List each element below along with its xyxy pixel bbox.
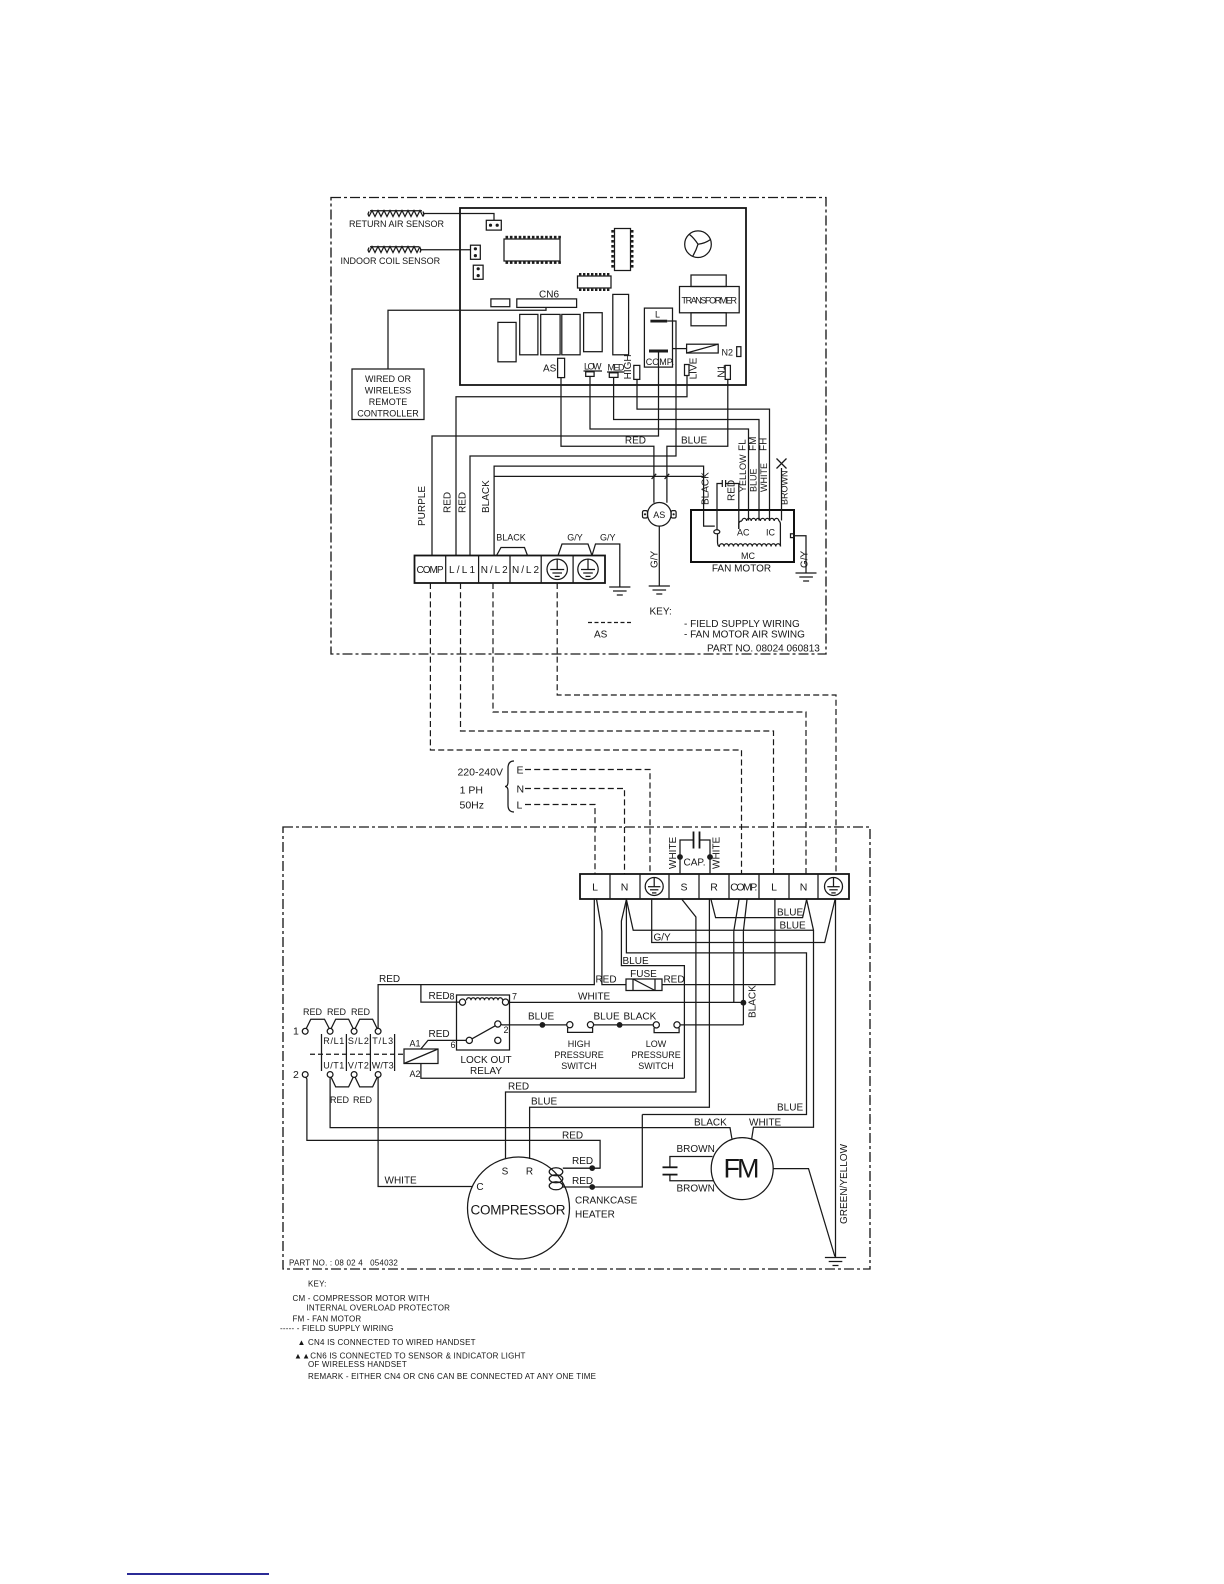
svg-text:BLACK: BLACK	[748, 985, 759, 1018]
wire return air sensor to CN	[423, 214, 494, 221]
svg-text:R: R	[710, 882, 718, 894]
AC/IC coil	[739, 521, 742, 529]
svg-text:BLACK: BLACK	[496, 533, 526, 543]
svg-text:PRESSURE: PRESSURE	[554, 1050, 604, 1060]
svg-text:COMP.: COMP.	[646, 357, 674, 367]
svg-text:CM - COMPRESSOR MOTOR WITH: CM - COMPRESSOR MOTOR WITH	[293, 1294, 430, 1303]
wire LIVE to L/L1 (RED)	[456, 376, 687, 556]
buzzer/fan symbol on PCB	[685, 231, 712, 258]
jumper loops row 2	[331, 1077, 353, 1087]
svg-text:A2: A2	[410, 1069, 421, 1079]
main IC U1	[504, 236, 561, 264]
svg-text:T/L3: T/L3	[372, 1036, 393, 1046]
svg-text:E: E	[517, 765, 524, 777]
svg-text:N1: N1	[717, 364, 728, 377]
svg-text:FL: FL	[738, 439, 749, 451]
IC U3 small	[578, 273, 612, 291]
svg-text:L: L	[771, 882, 777, 894]
svg-text:FM: FM	[724, 1154, 760, 1184]
high pressure switch	[567, 1022, 573, 1028]
outdoor unit dashed enclosure	[283, 827, 870, 1269]
svg-text:N/L2: N/L2	[512, 565, 539, 576]
svg-text:FAN MOTOR: FAN MOTOR	[712, 564, 771, 575]
jumper loops row 1	[306, 1019, 329, 1028]
svg-text:RED: RED	[303, 1007, 323, 1017]
svg-text:PRESSURE: PRESSURE	[631, 1050, 681, 1060]
svg-text:GREEN/YELLOW: GREEN/YELLOW	[839, 1143, 850, 1224]
svg-text:INDOOR COIL SENSOR: INDOOR COIL SENSOR	[341, 256, 441, 266]
svg-text:RED: RED	[595, 975, 616, 986]
wire indoor coil sensor to CN	[420, 249, 471, 251]
svg-text:COMPRESSOR: COMPRESSOR	[471, 1203, 566, 1218]
earth terminal E1	[547, 559, 567, 579]
svg-text:RED: RED	[379, 974, 400, 985]
svg-text:TRANSFORMER: TRANSFORMER	[682, 296, 738, 306]
jumper N2	[673, 344, 741, 357]
svg-text:BLUE: BLUE	[749, 468, 759, 492]
svg-text:220-240V: 220-240V	[457, 767, 503, 779]
wire relay pin8 to RED bus	[421, 985, 460, 1003]
field wire N	[525, 789, 625, 875]
wire COMP. cell to pressure switches (BLACK)	[743, 900, 747, 1025]
WHITE wire relay pin7 to COMP black wire	[510, 1001, 744, 1003]
svg-text:N/L2: N/L2	[481, 565, 508, 576]
wire LOW to fan motor (YELLOW/FL)	[590, 376, 749, 520]
svg-text:L: L	[655, 310, 660, 320]
svg-text:7: 7	[512, 992, 517, 1002]
svg-text:FM - FAN MOTOR: FM - FAN MOTOR	[293, 1315, 362, 1324]
svg-text:BLUE: BLUE	[681, 436, 707, 447]
svg-text:BLUE: BLUE	[528, 1012, 554, 1023]
svg-text:HIGH: HIGH	[623, 354, 634, 379]
svg-text:REMOTE: REMOTE	[369, 397, 408, 407]
svg-text:FM: FM	[748, 437, 759, 451]
svg-text:FUSE: FUSE	[630, 969, 657, 980]
svg-text:LOW: LOW	[584, 362, 602, 372]
svg-text:BROWN: BROWN	[780, 471, 790, 506]
chassis ground symbol	[609, 587, 630, 595]
BROWN wire with cut mark X	[781, 468, 783, 521]
svg-text:RED: RED	[327, 1007, 347, 1017]
heater top wire (RED)	[563, 1167, 600, 1169]
svg-text:CRANKCASE: CRANKCASE	[575, 1196, 638, 1207]
svg-text:FH: FH	[759, 438, 770, 451]
wire N(left) branch to crankcase heater	[626, 900, 806, 1115]
svg-text:2: 2	[293, 1069, 299, 1081]
outdoor fan motor FM	[663, 1118, 847, 1266]
return air sensor element	[349, 211, 501, 231]
indoor PCB board outline	[460, 208, 746, 385]
wire AS output to AS motor (RED)	[561, 378, 654, 503]
svg-text:RED: RED	[429, 1029, 450, 1040]
svg-text:HIGH: HIGH	[568, 1039, 591, 1049]
field wire E	[525, 770, 650, 875]
svg-text:RETURN AIR SENSOR: RETURN AIR SENSOR	[349, 219, 445, 229]
svg-text:RED: RED	[663, 975, 684, 986]
compressor CM	[468, 1157, 570, 1259]
svg-text:COMP.: COMP.	[730, 882, 757, 894]
inter-unit wire COMP	[430, 583, 741, 874]
outdoor terminal strip TB2	[580, 874, 849, 899]
svg-text:L/L1: L/L1	[449, 565, 475, 576]
fan motor FM indoor	[691, 437, 817, 581]
outdoor wiring upper	[378, 899, 850, 1258]
svg-text:BLUE: BLUE	[777, 908, 803, 919]
wire HIGH to fan motor (WHITE/FH)	[637, 379, 770, 520]
svg-text:RED: RED	[508, 1082, 529, 1093]
svg-text:RED: RED	[562, 1131, 583, 1142]
BLACK jumper flag on N/L2	[497, 548, 528, 556]
COMP driver block	[644, 308, 674, 367]
svg-text:INTERNAL OVERLOAD PROTECTOR: INTERNAL OVERLOAD PROTECTOR	[307, 1304, 451, 1313]
relay bank	[498, 294, 629, 361]
brace	[505, 761, 514, 812]
wire R cell to compressor R (BLUE)	[530, 900, 710, 1160]
svg-text:IC: IC	[766, 528, 776, 538]
svg-text:50Hz: 50Hz	[459, 800, 484, 812]
svg-text:S: S	[502, 1167, 509, 1178]
svg-text:L: L	[592, 882, 598, 894]
wire L(left) to isolator RED bus	[378, 899, 594, 1029]
svg-text:G/Y: G/Y	[650, 550, 661, 568]
wire U/T1 to outdoor fan motor (BLACK)	[330, 1077, 732, 1138]
svg-text:LOW: LOW	[646, 1039, 667, 1049]
svg-text:G/Y: G/Y	[567, 533, 583, 543]
svg-text:G/Y: G/Y	[800, 550, 811, 568]
earth terminal left	[645, 878, 663, 896]
svg-text:AS: AS	[594, 630, 608, 641]
svg-text:RED: RED	[572, 1176, 593, 1187]
inter-unit wire N/L2	[493, 583, 806, 874]
svg-text:- FIELD SUPPLY WIRING: - FIELD SUPPLY WIRING	[684, 619, 800, 630]
switch line from relay pin2	[501, 1023, 567, 1026]
svg-text:KEY:: KEY:	[308, 1280, 327, 1289]
svg-text:RED: RED	[443, 492, 454, 513]
svg-text:WIRED OR: WIRED OR	[365, 374, 411, 384]
svg-text:V/T2: V/T2	[348, 1061, 369, 1071]
indoor terminal block TB1	[415, 533, 631, 596]
wire N/L2 to fan motor (BLACK)	[494, 466, 715, 555]
wire COMP block to COMP terminal (PURPLE)	[432, 353, 659, 556]
wire S cell to compressor S (RED)	[506, 900, 696, 1159]
svg-text:N: N	[517, 784, 525, 796]
svg-text:G/Y: G/Y	[600, 533, 616, 543]
earth terminal E2	[578, 559, 598, 579]
svg-text:WIRELESS: WIRELESS	[365, 386, 412, 396]
run capacitor with BROWN leads	[670, 1157, 713, 1167]
pressure switches	[501, 1012, 744, 1072]
earth terminal right	[825, 878, 843, 896]
MC terminal lug	[714, 530, 720, 534]
svg-text:N: N	[621, 882, 629, 894]
svg-text:N2: N2	[722, 348, 734, 358]
svg-text:1: 1	[293, 1026, 299, 1038]
svg-text:RED: RED	[458, 492, 469, 513]
svg-text:RED: RED	[351, 1007, 371, 1017]
svg-text:WHITE: WHITE	[668, 836, 679, 869]
svg-text:RED: RED	[353, 1095, 373, 1105]
outdoor wiring lower	[777, 1103, 803, 1114]
svg-text:BLACK: BLACK	[624, 1012, 657, 1023]
svg-text:BLUE: BLUE	[531, 1097, 557, 1108]
inter-unit wire earth	[557, 583, 836, 874]
mounting ears	[643, 511, 648, 518]
svg-text:WHITE: WHITE	[578, 992, 611, 1003]
svg-text:RED: RED	[330, 1095, 350, 1105]
IC U2 vertical	[611, 229, 633, 271]
svg-text:U/T1: U/T1	[323, 1061, 344, 1071]
svg-text:LIVE: LIVE	[689, 357, 700, 379]
svg-text:RED: RED	[727, 480, 738, 501]
footer blue line	[127, 1573, 269, 1575]
connector LIVE	[685, 365, 690, 376]
svg-text:AS: AS	[653, 510, 665, 520]
thermal link and RED wire to AC coil	[717, 480, 739, 530]
svg-text:RELAY: RELAY	[470, 1066, 502, 1077]
svg-text:BROWN: BROWN	[677, 1184, 715, 1195]
svg-text:BLUE: BLUE	[623, 956, 649, 967]
transformer T1	[680, 275, 740, 326]
svg-text:HEATER: HEATER	[575, 1210, 615, 1221]
hop marks on AS leads	[652, 474, 670, 479]
svg-text:WHITE: WHITE	[385, 1176, 418, 1187]
svg-text:MC: MC	[741, 551, 755, 561]
cell separators	[321, 1034, 323, 1071]
svg-text:▲ CN4 IS CONNECTED TO WIRED HA: ▲ CN4 IS CONNECTED TO WIRED HANDSET	[298, 1338, 476, 1347]
G/Y flag over E1	[558, 544, 592, 556]
svg-text:R: R	[526, 1167, 533, 1178]
svg-text:WHITE: WHITE	[759, 463, 769, 492]
wire N1 to AS motor (BLUE)	[667, 379, 728, 502]
svg-text:- FAN MOTOR AIR SWING: - FAN MOTOR AIR SWING	[684, 630, 805, 641]
wire L(left) to fuse to L(right)	[597, 899, 627, 985]
wire W/T3 to compressor C (WHITE)	[378, 1077, 472, 1186]
contactor coil A1/A2	[404, 1049, 438, 1064]
svg-text:R/L1: R/L1	[323, 1036, 344, 1046]
svg-text:S: S	[680, 882, 687, 894]
svg-text:6: 6	[450, 1040, 455, 1050]
indoor key text	[588, 607, 820, 655]
wired or wireless remote controller	[352, 307, 546, 419]
crankcase heater	[549, 1115, 642, 1221]
wire earth right to ground (GREEN/YELLOW)	[835, 899, 837, 1258]
svg-text:WHITE: WHITE	[712, 836, 723, 869]
svg-text:BLUE: BLUE	[594, 1012, 620, 1023]
svg-text:N: N	[800, 882, 808, 894]
connector N1	[725, 365, 730, 379]
low pressure switch	[653, 1022, 659, 1028]
capacitor CAP	[668, 832, 723, 875]
wire MED to fan motor (BLUE/FM)	[614, 377, 759, 520]
mechanical link dashed to contactor coil	[310, 1053, 404, 1055]
svg-text:RED: RED	[572, 1156, 593, 1167]
svg-text:SWITCH: SWITCH	[638, 1061, 674, 1071]
AS earth wire G/Y	[658, 526, 660, 586]
svg-text:L: L	[517, 800, 523, 812]
svg-text:BLACK: BLACK	[481, 480, 492, 513]
PCB output connectors	[543, 354, 730, 379]
svg-text:CAP.: CAP.	[684, 858, 706, 869]
connector CN6	[491, 290, 577, 308]
svg-text:OF WIRELESS HANDSET: OF WIRELESS HANDSET	[308, 1360, 407, 1369]
wire earth left to earth right (G/Y)	[652, 899, 836, 943]
wire lug2 to crankcase heater (RED)	[306, 1077, 600, 1168]
svg-text:RED: RED	[429, 991, 450, 1002]
inter-unit wire L/L1	[461, 583, 774, 874]
svg-text:RED: RED	[625, 436, 646, 447]
wire N(right) to fan motor (WHITE)	[752, 900, 814, 1139]
svg-text:YELLOW: YELLOW	[738, 454, 748, 492]
svg-text:A1: A1	[410, 1039, 421, 1049]
svg-text:PURPLE: PURPLE	[417, 486, 428, 526]
heater bottom wire to N (RED)	[563, 1115, 643, 1188]
wire L bar to L/L1 (RED)	[470, 321, 676, 556]
MC coil	[718, 534, 721, 547]
air swing motor AS	[643, 503, 677, 595]
wire coil A2 to N (BLUE)	[421, 1064, 685, 1079]
svg-text:BLACK: BLACK	[694, 1118, 727, 1129]
svg-text:REMARK - EITHER CN4 OR CN6 CAN: REMARK - EITHER CN4 OR CN6 CAN BE CONNEC…	[308, 1372, 596, 1381]
svg-text:----- - FIELD SUPPLY WIRING: ----- - FIELD SUPPLY WIRING	[280, 1324, 394, 1333]
fuse F1	[595, 969, 684, 991]
indoor coil sensor element	[341, 245, 484, 279]
svg-text:SWITCH: SWITCH	[561, 1061, 597, 1071]
svg-text:COMP: COMP	[417, 565, 444, 576]
svg-text:BLACK: BLACK	[701, 472, 712, 505]
svg-text:BLUE: BLUE	[780, 921, 806, 932]
svg-text:LOCK OUT: LOCK OUT	[460, 1055, 511, 1066]
wire R to N(right) (BLUE)	[711, 900, 807, 918]
indoor unit dashed enclosure	[331, 198, 826, 655]
svg-text:CONTROLLER: CONTROLLER	[357, 409, 419, 419]
svg-text:C: C	[476, 1182, 483, 1193]
svg-text:BROWN: BROWN	[677, 1144, 715, 1155]
connector CN below	[473, 265, 483, 279]
svg-text:S/L2: S/L2	[348, 1036, 369, 1046]
lock out relay K1	[404, 985, 684, 1079]
G/Y earth wire from E2	[592, 544, 620, 587]
svg-text:G/Y: G/Y	[654, 933, 672, 944]
svg-text:BLUE: BLUE	[777, 1103, 803, 1114]
wire COMP. cell to relay pin7 white line	[734, 900, 739, 1003]
svg-text:PART NO. 08024 060813: PART NO. 08024 060813	[707, 644, 820, 655]
svg-text:2: 2	[504, 1025, 509, 1035]
svg-text:8: 8	[449, 992, 454, 1002]
outdoor key text	[280, 1259, 596, 1382]
svg-text:KEY:: KEY:	[650, 607, 672, 618]
wire N(left) branch to relay A2 (BLUE)	[621, 900, 684, 1079]
indoor wiring	[417, 321, 770, 556]
svg-text:1 PH: 1 PH	[460, 785, 483, 797]
svg-text:PART NO. : 08 02 4 054032: PART NO. : 08 02 4 054032	[289, 1259, 398, 1268]
svg-text:WHITE: WHITE	[749, 1118, 782, 1129]
svg-text:AS: AS	[543, 363, 557, 374]
FM earth wire to ground	[773, 1169, 835, 1257]
G/Y earth from fan motor	[791, 534, 795, 538]
wire relay pin6 to contactor coil A1	[421, 1040, 466, 1049]
svg-text:W/T3: W/T3	[372, 1061, 394, 1071]
isolator terminal block 1/2	[293, 1007, 732, 1187]
field wire L	[525, 805, 595, 875]
wire N(left) branch to N(right)	[626, 900, 813, 931]
